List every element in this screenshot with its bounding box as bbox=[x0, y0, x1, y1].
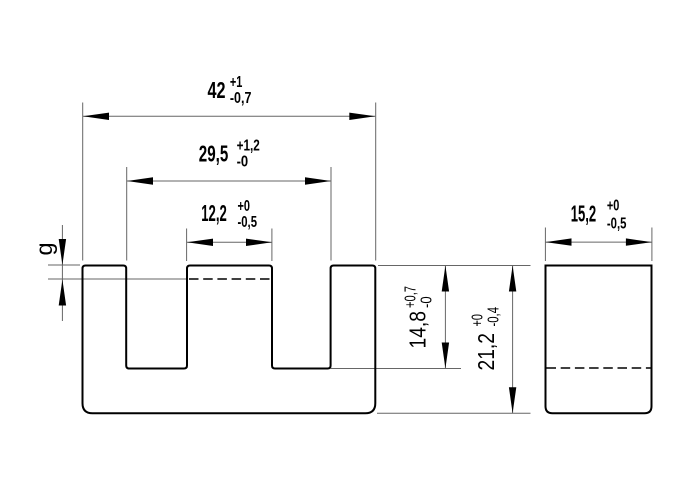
svg-text:14,8: 14,8 bbox=[404, 311, 430, 349]
dimension line 15,2 bbox=[546, 241, 652, 243]
svg-text:+0,7: +0,7 bbox=[402, 286, 419, 308]
dimension value 14,8 with tolerances (rotated) bbox=[402, 286, 435, 349]
E-core front view outline bbox=[83, 266, 376, 414]
svg-text:-0,5: -0,5 bbox=[238, 214, 258, 231]
svg-text:g: g bbox=[31, 242, 57, 255]
arrowhead dim 15,2 right bbox=[626, 238, 652, 245]
extension line bottom right (core bottom level) bbox=[377, 412, 531, 414]
arrowhead dim 21,2 top bbox=[509, 266, 516, 292]
svg-text:+0: +0 bbox=[470, 314, 487, 327]
svg-text:15,2: 15,2 bbox=[571, 201, 597, 227]
extension line right of dim 15,2 bbox=[651, 228, 653, 262]
svg-text:21,2: 21,2 bbox=[473, 333, 499, 371]
extension line g top (leg top level) bbox=[48, 264, 80, 266]
arrowhead dim 12,2 right bbox=[246, 239, 272, 246]
svg-text:-0,7: -0,7 bbox=[230, 90, 252, 107]
svg-text:+1: +1 bbox=[230, 74, 243, 91]
svg-text:+1,2: +1,2 bbox=[237, 138, 260, 155]
svg-text:-0,5: -0,5 bbox=[607, 215, 627, 232]
extension line right of dim 42 bbox=[375, 103, 377, 261]
arrowhead dim g top (outside, pointing down) bbox=[59, 239, 66, 265]
dimension line 12,2 bbox=[187, 241, 272, 243]
svg-text:-0: -0 bbox=[418, 296, 435, 308]
dimension label g (rotated) bbox=[31, 242, 57, 255]
svg-text:42: 42 bbox=[208, 77, 226, 103]
arrowhead dim 12,2 left bbox=[187, 239, 213, 246]
svg-text:-0,4: -0,4 bbox=[486, 307, 503, 327]
dimension line 21,2 (vertical) bbox=[512, 266, 514, 414]
arrowhead dim 42 right bbox=[349, 113, 375, 120]
svg-text:12,2: 12,2 bbox=[201, 200, 227, 226]
extension line g bottom (gap level) bbox=[48, 278, 187, 280]
arrowhead dim 29,5 left bbox=[127, 177, 153, 184]
extension line left of dim 15,2 bbox=[544, 228, 546, 262]
dimension line 29,5 bbox=[127, 180, 331, 182]
dimension value 21,2 with tolerances (rotated) bbox=[470, 307, 503, 371]
side view rectangle outline bbox=[546, 266, 652, 414]
svg-text:29,5: 29,5 bbox=[199, 141, 229, 167]
svg-text:-0: -0 bbox=[237, 153, 249, 170]
svg-text:+0: +0 bbox=[607, 198, 620, 215]
svg-text:+0: +0 bbox=[238, 198, 251, 215]
extension line slot bottom level for dim 14,8 bbox=[331, 368, 461, 370]
extension line right of dim 29,5 bbox=[330, 167, 332, 261]
arrowhead dim 42 left bbox=[83, 113, 109, 120]
dimension line g (vertical) bbox=[61, 225, 63, 321]
arrowhead dim 29,5 right bbox=[305, 177, 331, 184]
arrowhead dim g bottom (outside, pointing up) bbox=[59, 280, 66, 306]
dimension line 14,8 (vertical) bbox=[444, 266, 446, 369]
extension line right of dim 12,2 bbox=[271, 229, 273, 262]
extension line top right (core top level) bbox=[378, 265, 531, 267]
hidden gap line in center leg (dashed) bbox=[189, 278, 271, 280]
extension line left of dim 42 bbox=[82, 103, 84, 261]
arrowhead dim 15,2 left bbox=[546, 238, 572, 245]
extension line left of dim 29,5 bbox=[126, 167, 128, 261]
hidden slot-depth line in side view (dashed) bbox=[547, 367, 651, 369]
arrowhead dim 14,8 top bbox=[442, 266, 449, 292]
arrowhead dim 14,8 bottom bbox=[442, 343, 449, 369]
extension line left of dim 12,2 bbox=[186, 229, 188, 262]
arrowhead dim 21,2 bottom bbox=[509, 387, 516, 413]
dimension line 42 bbox=[83, 115, 375, 117]
